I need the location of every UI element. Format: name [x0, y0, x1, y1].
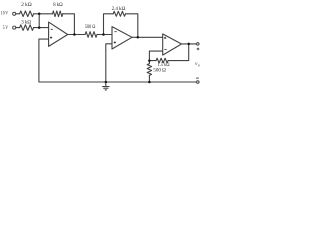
- U3 minus sign: [164, 48, 166, 50]
- resistor R6 1.5 kOhm (feedback op-amp U3): [156, 58, 168, 63]
- svg-text:8 kΩ: 8 kΩ: [53, 2, 62, 8]
- svg-text:500 Ω: 500 Ω: [85, 25, 96, 30]
- wire 2.4k feedback left leg: [104, 14, 114, 35]
- wire 1.5k to output junction: [168, 44, 189, 61]
- svg-text:500 Ω: 500 Ω: [153, 68, 166, 73]
- label + output terminal: [197, 48, 200, 51]
- U1 plus sign: [50, 37, 52, 39]
- wire into U2 inverting input: [97, 34, 112, 36]
- resistor R5 2.4 kOhm (feedback op-amp U2): [113, 11, 125, 16]
- resistor R4 500 Ohm: [85, 32, 97, 38]
- svg-text:3 kΩ: 3 kΩ: [21, 19, 31, 25]
- svg-text:10 V: 10 V: [1, 11, 8, 17]
- resistor R1 2 kOhm: [20, 11, 34, 17]
- node A dot top: [38, 13, 41, 16]
- wire feedback down to U1 output: [63, 14, 75, 35]
- junction U3 output: [187, 43, 190, 46]
- wire node B to 1.5k: [149, 60, 156, 62]
- svg-text:o: o: [198, 63, 200, 67]
- U2 plus sign: [114, 41, 116, 43]
- source terminal 5 V: [13, 26, 16, 29]
- resistor R7 500 Ohm (to ground): [147, 64, 151, 76]
- ground: [105, 82, 107, 86]
- wire: [16, 13, 20, 15]
- output terminal plus: [197, 43, 200, 46]
- wire U2 output to U3 noninverting input: [132, 36, 163, 38]
- wire U1 output: [68, 34, 85, 36]
- wire U2 noninverting input to ground rail: [106, 44, 112, 82]
- U1 minus sign: [51, 28, 53, 30]
- wire into U1 inverting input: [34, 27, 49, 29]
- svg-text:2 kΩ: 2 kΩ: [21, 2, 32, 8]
- resistor R3 8 kOhm (feedback op-amp U1): [53, 11, 63, 17]
- wire U3 output to + terminal: [182, 43, 197, 45]
- U3 plus sign: [164, 37, 166, 39]
- wire U3 inverting input down to node B: [149, 51, 162, 61]
- resistor R2 3 kOhm: [20, 25, 34, 31]
- wire node B stub to 500 vertical: [148, 61, 150, 64]
- wire bottom rail: [39, 81, 197, 83]
- svg-text:2.4 kΩ: 2.4 kΩ: [112, 6, 126, 12]
- wire node A to 8k: [39, 13, 52, 15]
- output terminal minus: [197, 81, 200, 84]
- op-amp U1: [49, 22, 68, 46]
- junction ground: [105, 81, 108, 84]
- label minus output terminal: [196, 77, 199, 79]
- U2 minus sign: [115, 31, 117, 33]
- wire 2.4k feedback right leg: [126, 14, 138, 38]
- wire U1 noninverting input: [39, 39, 49, 82]
- junction node B: [148, 59, 151, 62]
- source terminal 10 V: [13, 12, 16, 15]
- op-amp U2: [112, 27, 132, 49]
- junction U1 output: [73, 33, 76, 36]
- wire: [16, 27, 20, 29]
- svg-text:5 V: 5 V: [3, 25, 8, 31]
- junction U2 inverting node: [102, 33, 105, 36]
- op-amp U3: [163, 34, 182, 55]
- junction U2 output: [137, 36, 140, 39]
- junction 500v bottom: [148, 81, 151, 84]
- wire 500 vertical to rail: [148, 75, 150, 82]
- svg-text:1.5 kΩ: 1.5 kΩ: [158, 63, 170, 68]
- wire node A vertical: [38, 14, 40, 28]
- node A dot mid: [38, 26, 41, 29]
- wire to node A: [34, 13, 40, 15]
